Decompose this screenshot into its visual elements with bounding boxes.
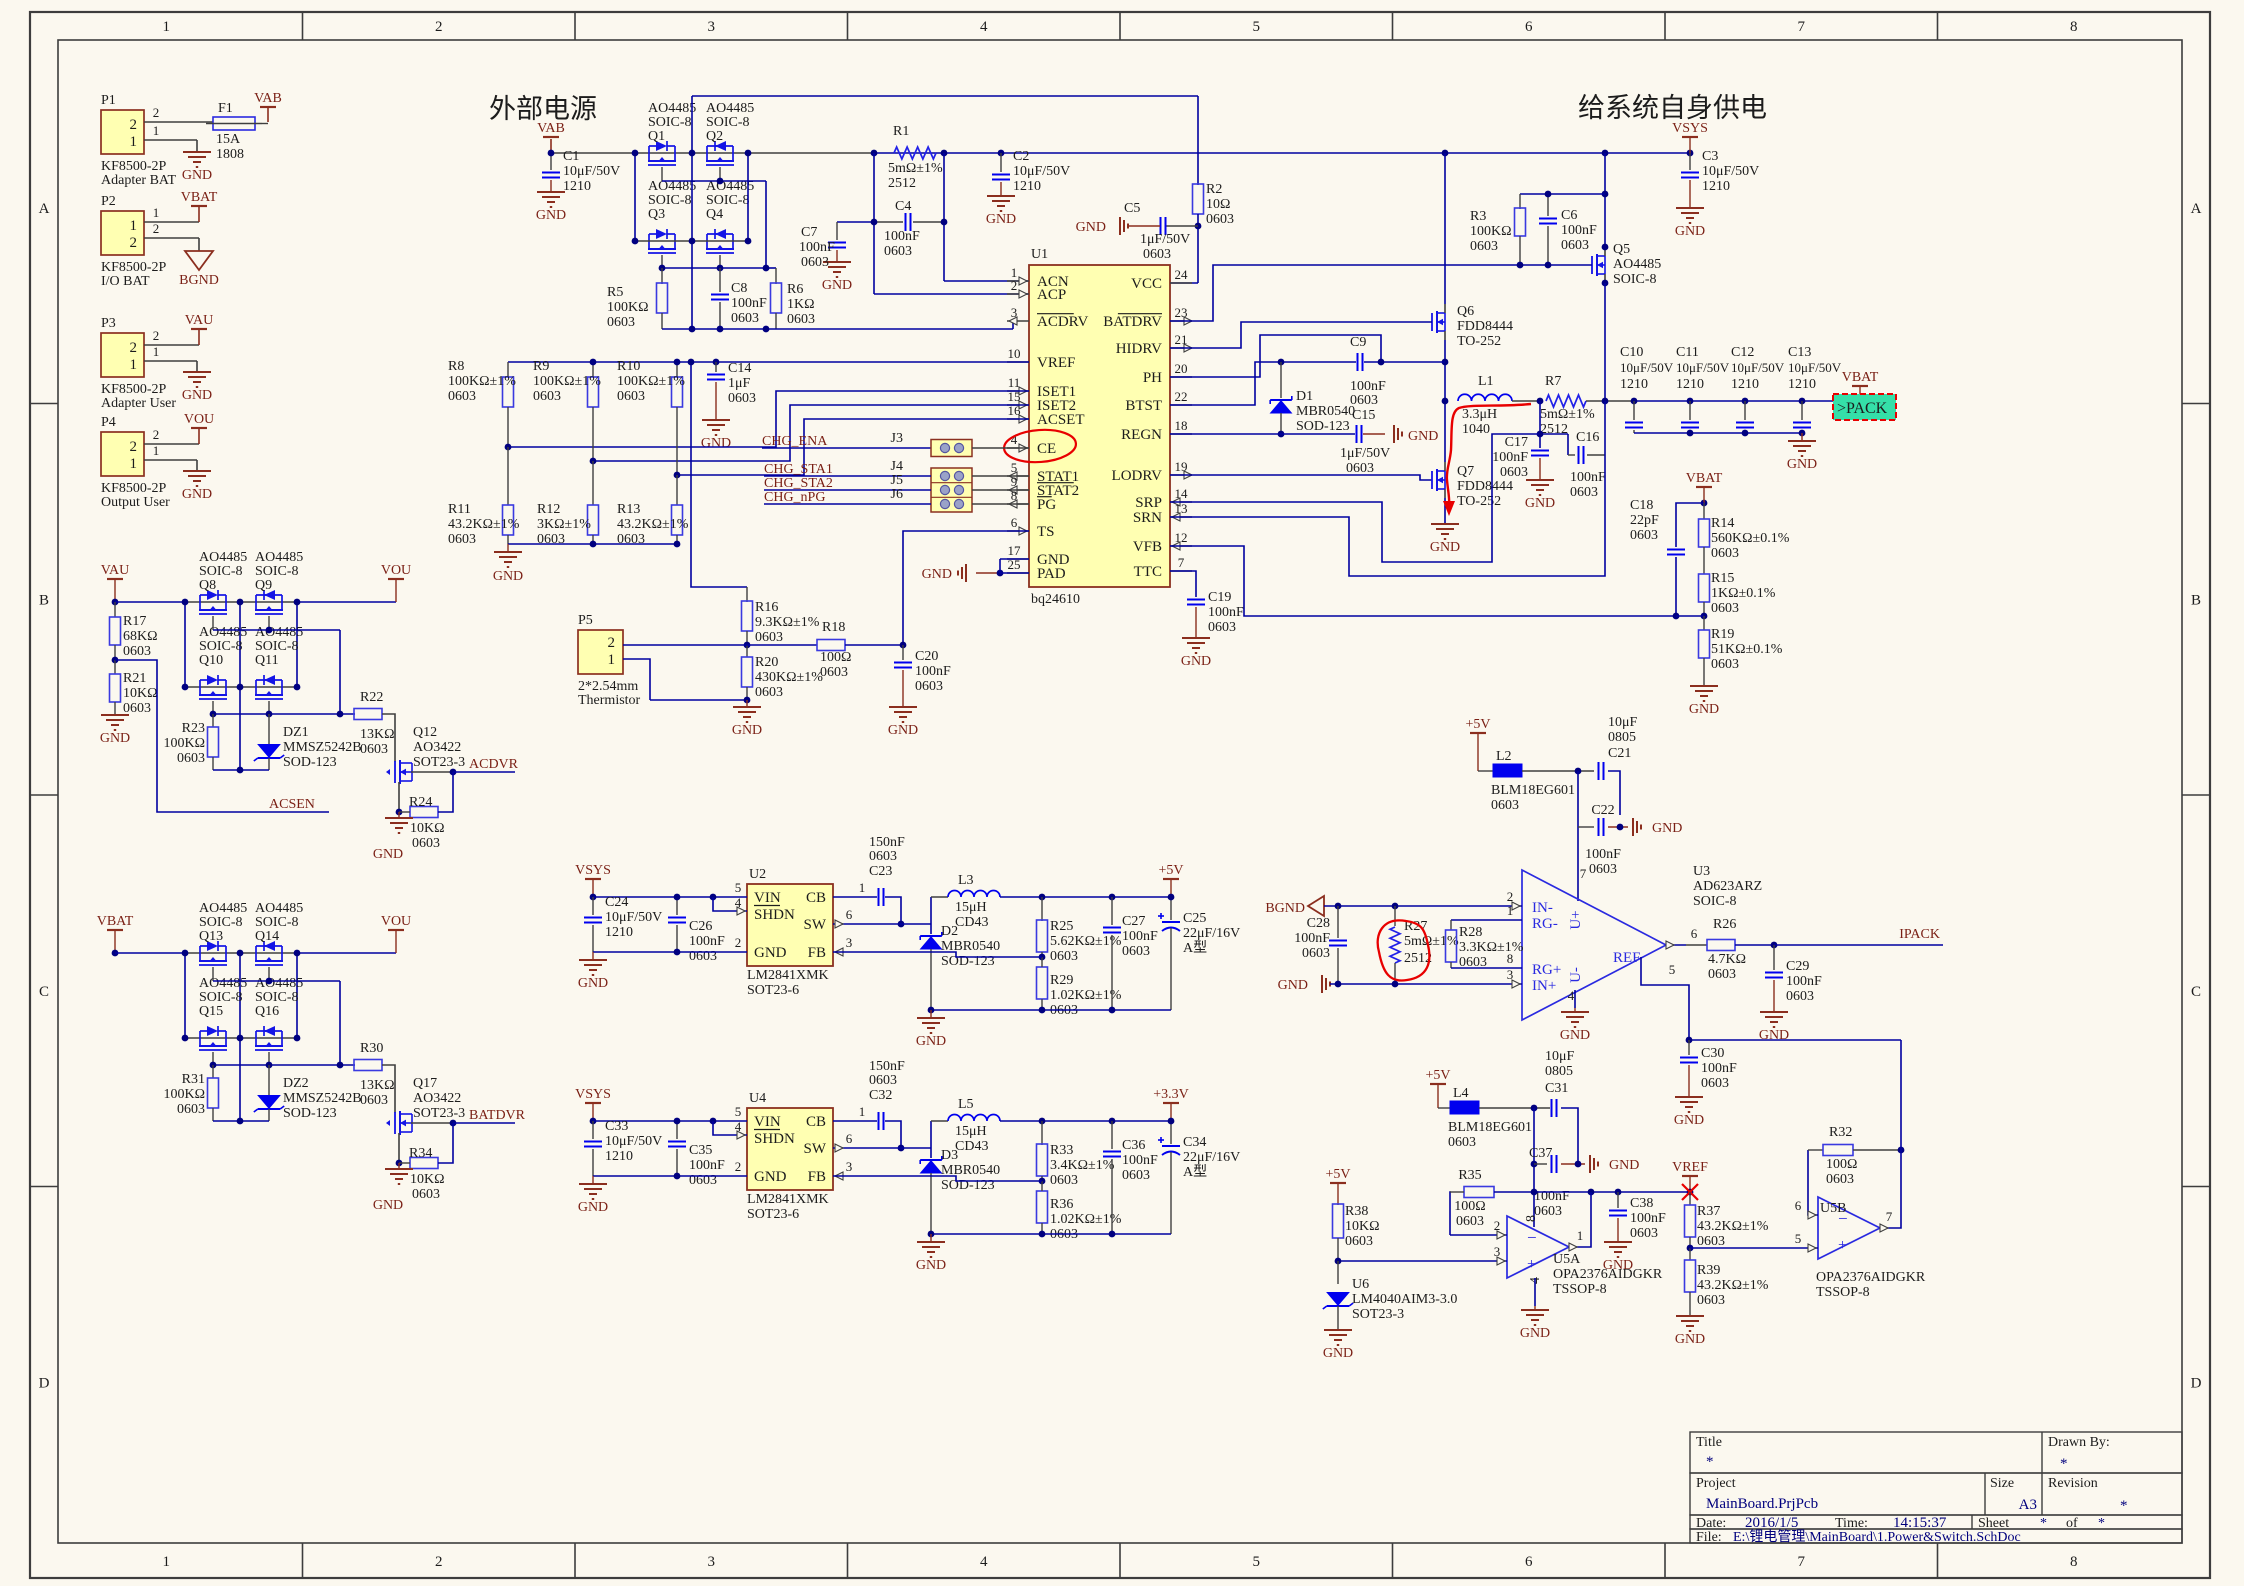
svg-text:1μF/50V: 1μF/50V [1140,232,1190,247]
svg-text:C27: C27 [1122,914,1145,929]
svg-text:Revision: Revision [2048,1476,2098,1491]
svg-text:2: 2 [1011,278,1018,293]
svg-text:SW: SW [804,1141,827,1157]
svg-text:GND: GND [1278,978,1308,993]
svg-text:A3: A3 [2019,1497,2037,1513]
svg-text:MMSZ5242B: MMSZ5242B [283,1091,362,1106]
svg-text:51KΩ±0.1%: 51KΩ±0.1% [1711,642,1783,657]
svg-text:0603: 0603 [869,849,897,864]
svg-text:ACSET: ACSET [1037,412,1085,428]
svg-text:KF8500-2P: KF8500-2P [101,382,167,397]
svg-text:J6: J6 [891,487,903,502]
svg-text:C9: C9 [1350,335,1366,350]
svg-text:0603: 0603 [177,751,205,766]
svg-text:43.2KΩ±1%: 43.2KΩ±1% [448,517,520,532]
svg-text:0805: 0805 [1545,1064,1573,1079]
svg-text:CB: CB [806,890,826,906]
svg-text:KF8500-2P: KF8500-2P [101,481,167,496]
svg-text:Output User: Output User [101,495,170,510]
svg-text:E:\锂电管理\MainBoard\1.Power&Swit: E:\锂电管理\MainBoard\1.Power&Switch.SchDoc [1733,1529,2021,1545]
svg-text:MMSZ5242B: MMSZ5242B [283,740,362,755]
svg-text:17: 17 [1008,543,1022,558]
svg-text:BTST: BTST [1125,398,1162,414]
svg-text:Adapter User: Adapter User [101,396,176,411]
svg-text:10μF/50V: 10μF/50V [1013,164,1070,179]
svg-text:C25: C25 [1183,911,1206,926]
svg-text:P1: P1 [101,93,116,108]
svg-text:TSSOP-8: TSSOP-8 [1553,1282,1607,1297]
svg-text:AD623ARZ: AD623ARZ [1693,879,1762,894]
svg-text:MainBoard.PrjPcb: MainBoard.PrjPcb [1706,1496,1818,1512]
svg-text:U2: U2 [749,867,766,882]
svg-text:GND: GND [754,1169,787,1185]
svg-text:AO4485: AO4485 [255,550,303,565]
svg-text:R37: R37 [1697,1204,1720,1219]
svg-text:1: 1 [1577,1228,1584,1243]
svg-text:C33: C33 [605,1119,628,1134]
svg-text:VBAT: VBAT [181,190,218,205]
svg-text:4: 4 [980,1554,988,1570]
svg-text:4: 4 [980,19,988,35]
svg-text:22pF: 22pF [1630,513,1659,528]
svg-text:R23: R23 [182,721,205,736]
svg-text:BATDRV: BATDRV [1103,314,1162,330]
svg-text:100nF: 100nF [799,240,835,255]
svg-text:6: 6 [846,907,853,922]
svg-text:0603: 0603 [801,255,829,270]
svg-text:2: 2 [435,1554,443,1570]
svg-text:C12: C12 [1731,345,1754,360]
svg-text:C36: C36 [1122,1138,1145,1153]
svg-text:Sheet: Sheet [1978,1516,2009,1531]
svg-text:GND: GND [732,723,762,738]
svg-text:100nF: 100nF [884,229,920,244]
svg-text:15μH: 15μH [955,1124,987,1139]
svg-text:+5V: +5V [1465,717,1490,732]
svg-text:10μF/50V: 10μF/50V [1702,164,1759,179]
svg-text:+5V: +5V [1158,863,1183,878]
svg-text:VFB: VFB [1133,539,1162,555]
svg-text:C16: C16 [1576,430,1599,445]
svg-text:1KΩ: 1KΩ [787,297,815,312]
svg-text:GND: GND [916,1034,946,1049]
svg-text:I/O BAT: I/O BAT [101,274,150,289]
svg-text:10μF/50V: 10μF/50V [605,910,662,925]
svg-text:11: 11 [1008,375,1021,390]
svg-text:C18: C18 [1630,498,1653,513]
svg-text:1808: 1808 [216,147,244,162]
svg-text:VBAT: VBAT [97,914,134,929]
svg-text:AO4485: AO4485 [255,901,303,916]
svg-text:100nF: 100nF [1561,223,1597,238]
svg-text:0603: 0603 [1500,465,1528,480]
svg-text:R9: R9 [533,359,549,374]
svg-text:9.3KΩ±1%: 9.3KΩ±1% [755,615,820,630]
svg-text:0603: 0603 [1570,485,1598,500]
svg-text:C24: C24 [605,895,628,910]
svg-text:GND: GND [182,168,212,183]
svg-text:Q6: Q6 [1457,304,1474,319]
svg-text:VREF: VREF [1037,355,1075,371]
svg-text:B: B [39,592,49,608]
svg-text:22μF/16V: 22μF/16V [1183,926,1240,941]
svg-text:6: 6 [1795,1198,1802,1213]
svg-text:SOT23-3: SOT23-3 [413,755,465,770]
svg-text:VSYS: VSYS [1672,121,1708,136]
svg-text:5: 5 [1669,962,1676,977]
svg-text:C7: C7 [801,225,817,240]
svg-text:1210: 1210 [1788,377,1816,392]
svg-text:J4: J4 [891,459,903,474]
svg-text:VOU: VOU [381,914,411,929]
svg-text:10μF/50V: 10μF/50V [1620,360,1674,375]
svg-text:RG+: RG+ [1532,962,1561,978]
svg-text:0603: 0603 [820,665,848,680]
svg-text:1: 1 [153,344,160,359]
svg-text:C26: C26 [689,919,712,934]
svg-text:GND: GND [1430,540,1460,555]
svg-text:8: 8 [2070,1554,2078,1570]
svg-text:HIDRV: HIDRV [1116,341,1162,357]
svg-text:R31: R31 [182,1072,205,1087]
svg-text:AO4485: AO4485 [255,625,303,640]
svg-text:1210: 1210 [1620,377,1648,392]
svg-text:AO4485: AO4485 [199,550,247,565]
svg-text:GND: GND [578,976,608,991]
svg-text:15A: 15A [216,132,241,147]
svg-text:IN-: IN- [1532,900,1553,916]
svg-text:PG: PG [1037,497,1056,513]
svg-text:5mΩ±1%: 5mΩ±1% [888,161,943,176]
svg-text:ACDRV: ACDRV [1037,314,1088,330]
svg-text:0603: 0603 [1697,1293,1725,1308]
svg-text:OPA2376AIDGKR: OPA2376AIDGKR [1816,1270,1926,1285]
svg-text:6: 6 [1691,926,1698,941]
svg-text:R34: R34 [409,1146,432,1161]
svg-text:GND: GND [1181,654,1211,669]
svg-text:SOIC-8: SOIC-8 [255,564,299,579]
svg-text:100Ω: 100Ω [1826,1157,1857,1172]
svg-text:D1: D1 [1296,389,1313,404]
svg-text:430KΩ±1%: 430KΩ±1% [755,670,823,685]
svg-text:AO4485: AO4485 [1613,257,1661,272]
svg-text:1210: 1210 [563,179,591,194]
svg-text:of: of [2066,1516,2078,1531]
svg-text:File:: File: [1696,1530,1722,1545]
svg-text:D: D [2191,1375,2202,1391]
svg-text:SOIC-8: SOIC-8 [648,115,692,130]
svg-text:1: 1 [859,880,866,895]
svg-text:L4: L4 [1453,1086,1469,1101]
svg-text:1: 1 [130,218,138,234]
svg-text:1μF: 1μF [728,376,751,391]
svg-text:Q5: Q5 [1613,242,1630,257]
svg-text:GND: GND [916,1258,946,1273]
svg-text:3.4KΩ±1%: 3.4KΩ±1% [1050,1158,1115,1173]
svg-text:0603: 0603 [412,1187,440,1202]
svg-text:150nF: 150nF [869,835,905,850]
svg-text:A型: A型 [1183,1164,1207,1180]
svg-text:BLM18EG601: BLM18EG601 [1448,1120,1532,1135]
svg-text:7: 7 [1178,555,1185,570]
svg-text:R5: R5 [607,285,623,300]
svg-text:R2: R2 [1206,182,1222,197]
svg-text:P2: P2 [101,194,116,209]
svg-text:SOIC-8: SOIC-8 [255,990,299,1005]
svg-text:GND: GND [888,723,918,738]
svg-text:20: 20 [1175,361,1188,376]
svg-text:10Ω: 10Ω [1206,197,1230,212]
svg-text:0603: 0603 [869,1073,897,1088]
svg-text:AO3422: AO3422 [413,1091,461,1106]
svg-text:C30: C30 [1701,1046,1724,1061]
svg-text:U5B: U5B [1820,1201,1846,1216]
svg-text:Q1: Q1 [648,129,665,144]
svg-text:1: 1 [163,19,171,35]
svg-text:0603: 0603 [607,315,635,330]
svg-text:7: 7 [1580,866,1587,881]
svg-text:+: + [1838,1237,1847,1254]
svg-text:0603: 0603 [1448,1135,1476,1150]
svg-text:FB: FB [808,945,826,961]
svg-text:0603: 0603 [1697,1234,1725,1249]
svg-text:FDD8444: FDD8444 [1457,479,1513,494]
svg-text:0603: 0603 [915,679,943,694]
svg-text:10μF/50V: 10μF/50V [1676,360,1730,375]
svg-text:1: 1 [153,205,160,220]
svg-text:SOD-123: SOD-123 [283,1106,337,1121]
svg-text:7: 7 [1798,19,1806,35]
svg-text:TTC: TTC [1134,564,1162,580]
svg-text:L1: L1 [1478,374,1494,389]
svg-text:5mΩ±1%: 5mΩ±1% [1404,934,1459,949]
svg-text:U6: U6 [1352,1277,1369,1292]
svg-text:10μF: 10μF [1608,715,1638,730]
svg-text:TO-252: TO-252 [1457,494,1501,509]
svg-text:SOIC-8: SOIC-8 [199,915,243,930]
svg-text:C29: C29 [1786,959,1809,974]
svg-text:3: 3 [846,1159,853,1174]
svg-text:U+: U+ [1568,910,1584,929]
svg-text:100Ω: 100Ω [1454,1199,1485,1214]
svg-text:VSYS: VSYS [575,863,611,878]
svg-text:R14: R14 [1711,516,1734,531]
svg-text:VBAT: VBAT [1842,370,1879,385]
svg-text:R21: R21 [123,671,146,686]
svg-text:2*2.54mm: 2*2.54mm [578,679,638,694]
svg-text:10: 10 [1008,346,1021,361]
svg-text:GND: GND [1525,496,1555,511]
svg-text:VAU: VAU [101,563,130,578]
svg-text:SW: SW [804,917,827,933]
svg-text:L2: L2 [1496,749,1512,764]
svg-text:+5V: +5V [1425,1068,1450,1083]
svg-text:2512: 2512 [888,176,916,191]
svg-text:VAB: VAB [254,91,282,106]
svg-text:L5: L5 [958,1097,974,1112]
svg-text:24: 24 [1175,267,1189,282]
svg-text:100KΩ: 100KΩ [163,736,205,751]
svg-text:SOD-123: SOD-123 [1296,419,1350,434]
svg-text:Adapter BAT: Adapter BAT [101,173,176,188]
svg-text:0603: 0603 [1630,528,1658,543]
svg-text:外部电源: 外部电源 [489,94,597,124]
svg-text:BGND: BGND [1265,901,1305,916]
svg-text:Q8: Q8 [199,578,216,593]
svg-text:0603: 0603 [533,389,561,404]
svg-text:C2: C2 [1013,149,1029,164]
svg-text:10μF/50V: 10μF/50V [1788,360,1842,375]
svg-text:R7: R7 [1545,374,1561,389]
svg-text:+: + [1527,1256,1536,1273]
svg-text:0603: 0603 [1302,946,1330,961]
svg-text:SOIC-8: SOIC-8 [199,990,243,1005]
svg-text:12: 12 [1175,530,1188,545]
svg-text:SOIC-8: SOIC-8 [706,115,750,130]
svg-text:2: 2 [153,328,160,343]
svg-text:Q11: Q11 [255,653,279,668]
svg-text:15μH: 15μH [955,900,987,915]
svg-text:6: 6 [1525,1554,1533,1570]
svg-text:VAB: VAB [537,121,565,136]
svg-text:*: * [2040,1516,2047,1531]
svg-text:CHG_STA2: CHG_STA2 [764,476,833,491]
svg-text:GND: GND [100,731,130,746]
svg-text:BGND: BGND [179,273,219,288]
svg-text:3.3KΩ±1%: 3.3KΩ±1% [1459,940,1524,955]
svg-text:GND: GND [701,436,731,451]
svg-text:10μF/50V: 10μF/50V [605,1134,662,1149]
svg-text:TS: TS [1037,524,1055,540]
svg-text:SOIC-8: SOIC-8 [1693,894,1737,909]
svg-text:0603: 0603 [1786,989,1814,1004]
svg-text:43.2KΩ±1%: 43.2KΩ±1% [617,517,689,532]
svg-text:1: 1 [130,456,138,472]
svg-text:100nF: 100nF [1492,450,1528,465]
svg-text:GND: GND [1408,429,1438,444]
svg-text:U1: U1 [1031,247,1048,262]
svg-text:5: 5 [1253,1554,1261,1570]
svg-text:SOIC-8: SOIC-8 [1613,272,1657,287]
svg-text:CE: CE [1037,441,1056,457]
svg-text:C1: C1 [563,149,579,164]
svg-text:13: 13 [1175,501,1188,516]
svg-text:C: C [39,984,49,1000]
svg-text:10μF/50V: 10μF/50V [563,164,620,179]
svg-text:5: 5 [735,880,742,895]
svg-text:2: 2 [608,635,616,651]
svg-text:J5: J5 [891,473,903,488]
svg-text:0603: 0603 [728,391,756,406]
svg-text:R13: R13 [617,502,640,517]
svg-text:GND: GND [1675,1332,1705,1347]
svg-text:GND: GND [182,487,212,502]
svg-text:C38: C38 [1630,1196,1653,1211]
svg-text:*: * [2120,1498,2128,1514]
svg-text:8: 8 [1524,1215,1539,1222]
svg-text:OPA2376AIDGKR: OPA2376AIDGKR [1553,1267,1663,1282]
svg-text:CHG_STA1: CHG_STA1 [764,462,833,477]
svg-text:0603: 0603 [1589,862,1617,877]
svg-text:SOIC-8: SOIC-8 [255,639,299,654]
svg-text:0603: 0603 [1561,238,1589,253]
svg-text:1μF/50V: 1μF/50V [1340,446,1390,461]
svg-text:SOT23-6: SOT23-6 [747,1207,799,1222]
svg-text:IPACK: IPACK [1899,927,1940,942]
svg-text:1: 1 [130,134,138,150]
svg-text:PAD: PAD [1037,566,1066,582]
svg-text:SOIC-8: SOIC-8 [706,193,750,208]
svg-text:C20: C20 [915,649,938,664]
svg-text:C23: C23 [869,864,892,879]
svg-text:R22: R22 [360,690,383,705]
svg-text:C: C [2191,984,2201,1000]
svg-text:A: A [39,201,50,217]
svg-text:10μF: 10μF [1545,1049,1575,1064]
svg-text:SOT23-6: SOT23-6 [747,983,799,998]
svg-text:Q9: Q9 [255,578,272,593]
svg-text:L3: L3 [958,873,974,888]
svg-text:2: 2 [130,117,138,133]
svg-text:0603: 0603 [755,630,783,645]
svg-text:RG-: RG- [1532,916,1558,932]
svg-text:0603: 0603 [1122,1168,1150,1183]
svg-text:6: 6 [846,1131,853,1146]
svg-text:AO4485: AO4485 [706,101,754,116]
svg-text:−: − [1527,1228,1537,1247]
svg-text:Q13: Q13 [199,929,223,944]
svg-text:GND: GND [822,278,852,293]
svg-text:Q15: Q15 [199,1004,223,1019]
svg-text:SRP: SRP [1135,495,1162,511]
svg-text:R10: R10 [617,359,640,374]
svg-text:R11: R11 [448,502,471,517]
svg-text:0603: 0603 [1708,967,1736,982]
svg-text:R18: R18 [822,620,845,635]
svg-text:14: 14 [1175,486,1189,501]
svg-text:Title: Title [1696,1435,1722,1450]
svg-text:+3.3V: +3.3V [1153,1087,1189,1102]
svg-text:AO3422: AO3422 [413,740,461,755]
svg-text:VBAT: VBAT [1686,471,1723,486]
svg-text:100nF: 100nF [1350,379,1386,394]
svg-text:LODRV: LODRV [1112,468,1163,484]
svg-text:100nF: 100nF [1570,470,1606,485]
svg-text:C15: C15 [1352,408,1375,423]
svg-text:C6: C6 [1561,208,1577,223]
svg-text:LM4040AIM3-3.0: LM4040AIM3-3.0 [1352,1292,1457,1307]
svg-text:A: A [2191,201,2202,217]
svg-text:3KΩ±1%: 3KΩ±1% [537,517,591,532]
svg-text:ACP: ACP [1037,287,1066,303]
svg-text:8: 8 [2070,19,2078,35]
svg-text:0603: 0603 [1711,657,1739,672]
svg-text:B: B [2191,592,2201,608]
svg-text:5mΩ±1%: 5mΩ±1% [1540,407,1595,422]
svg-text:6: 6 [1011,515,1018,530]
svg-text:5.62KΩ±1%: 5.62KΩ±1% [1050,934,1122,949]
svg-text:100nF: 100nF [1630,1211,1666,1226]
svg-text:*: * [2098,1516,2105,1531]
svg-text:0603: 0603 [1711,546,1739,561]
svg-text:100nF: 100nF [689,1158,725,1173]
svg-text:1: 1 [608,652,616,668]
svg-text:AO4485: AO4485 [199,901,247,916]
svg-text:0603: 0603 [1346,461,1374,476]
svg-text:100KΩ: 100KΩ [1470,224,1512,239]
svg-text:R28: R28 [1459,925,1482,940]
svg-text:0603: 0603 [412,836,440,851]
